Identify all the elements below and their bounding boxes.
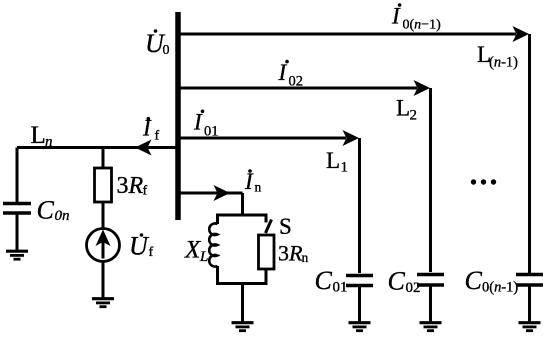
svg-text:3R: 3R (117, 173, 144, 199)
svg-text:01: 01 (204, 123, 219, 139)
svg-text:f: f (143, 184, 148, 199)
svg-text:0(n-1): 0(n-1) (482, 280, 518, 296)
svg-text:I: I (391, 3, 401, 28)
svg-text:L: L (31, 122, 46, 149)
svg-text:3R: 3R (278, 241, 303, 266)
svg-text:f: f (149, 245, 154, 260)
svg-text:n: n (302, 250, 309, 265)
svg-text:U: U (129, 231, 150, 260)
svg-text:L: L (199, 249, 208, 265)
svg-text:S: S (279, 214, 292, 239)
svg-text:L: L (396, 96, 410, 121)
svg-text:L: L (326, 148, 340, 173)
svg-text:C: C (465, 266, 483, 295)
svg-text:I: I (244, 169, 254, 194)
svg-text:(n-1): (n-1) (489, 55, 518, 71)
svg-text:0: 0 (163, 43, 170, 58)
svg-text:C: C (388, 267, 406, 296)
svg-text:I: I (142, 115, 152, 140)
svg-text:0n: 0n (55, 208, 70, 224)
svg-text:0(n−1): 0(n−1) (403, 17, 442, 32)
svg-text:I: I (193, 110, 203, 135)
svg-text:f: f (155, 129, 160, 144)
svg-text:C: C (315, 266, 333, 295)
svg-text:I: I (278, 60, 288, 85)
svg-text:02: 02 (289, 73, 304, 89)
svg-text:02: 02 (406, 280, 421, 296)
svg-text:C: C (37, 196, 55, 225)
svg-text:01: 01 (333, 280, 348, 296)
svg-text:1: 1 (341, 160, 349, 176)
svg-text:n: n (255, 180, 262, 195)
svg-text:n: n (45, 134, 53, 150)
svg-text:2: 2 (410, 108, 418, 124)
